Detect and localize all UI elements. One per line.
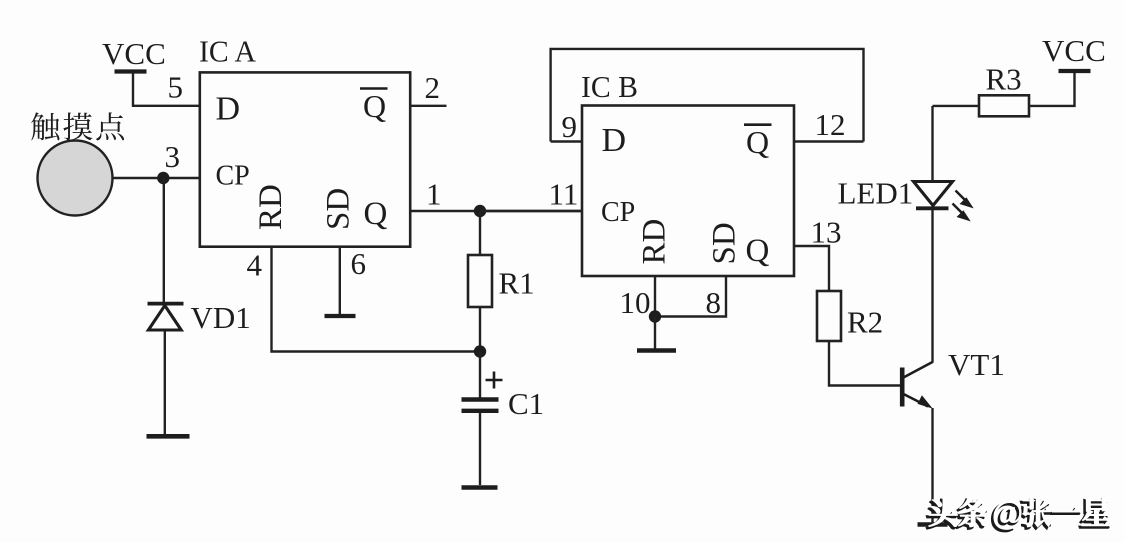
watermark 头条@张一星 (927, 500, 1109, 532)
wire node to ground (654, 317, 656, 349)
svg-text:3: 3 (165, 139, 181, 174)
svg-text:IC A: IC A (199, 34, 257, 69)
wire R3 to VCC (1029, 73, 1075, 106)
transistor VT1 (902, 362, 933, 409)
svg-text:D: D (216, 91, 241, 128)
wire touch pad to CP (pin 3) (113, 177, 200, 179)
wire pin 6 (SD) to ground (339, 247, 341, 315)
svg-text:CP: CP (601, 197, 635, 228)
svg-text:12: 12 (815, 107, 846, 142)
wire pin 8 stub down and left (655, 276, 726, 317)
op-amp/flip-flop IC A box (200, 72, 410, 246)
wire VD1 to terminal (164, 331, 166, 434)
wire R2 to VT1 base (829, 341, 900, 386)
svg-text:R2: R2 (847, 305, 883, 340)
wire collector up to LED (931, 210, 933, 363)
wire pin 13 (Q) right and down to R2 (794, 246, 829, 291)
diode VD1 (148, 304, 184, 330)
wire VCC to pin 5 (D of IC A) (133, 74, 200, 106)
power VCC (left) (102, 36, 166, 72)
node junction at R1 top (474, 205, 486, 217)
wire pin 10 stub down (654, 276, 656, 317)
node junction at pin 3 (157, 172, 169, 184)
touch pad circle (38, 141, 113, 216)
svg-text:Q: Q (746, 124, 769, 160)
svg-text:D: D (602, 122, 627, 159)
wire pin 4 (RD) down and right to R1/C1 node (272, 247, 481, 352)
svg-text:5: 5 (168, 70, 184, 105)
svg-text:1: 1 (426, 177, 442, 212)
wire pin 9 stub (551, 140, 582, 142)
svg-text:SD: SD (707, 222, 743, 264)
pin 11 wire into CP (480, 210, 582, 212)
svg-text:VCC: VCC (1042, 33, 1106, 68)
wire LED anode up to R3 (931, 106, 933, 182)
C1 polarity plus sign (486, 372, 503, 389)
svg-text:9: 9 (562, 109, 578, 144)
svg-text:Q: Q (364, 196, 388, 232)
wire R1 to node (479, 307, 481, 352)
wire LED net to R3 (933, 105, 980, 107)
svg-text:VT1: VT1 (948, 347, 1005, 382)
svg-text:11: 11 (549, 177, 579, 212)
wire emitter down to terminal (931, 408, 933, 523)
flip-flop IC B box (582, 106, 794, 277)
svg-text:RD: RD (637, 219, 673, 265)
node junction pins 10/8 (649, 310, 661, 322)
resistor R3 (979, 95, 1029, 116)
resistor R1 (468, 255, 492, 307)
svg-text:13: 13 (811, 215, 842, 250)
svg-text:10: 10 (620, 285, 651, 320)
svg-text:8: 8 (706, 285, 722, 320)
IC A pin Qbar label (360, 88, 388, 124)
svg-text:VD1: VD1 (191, 300, 251, 335)
ground terminal below C1 (462, 485, 498, 490)
LED LED1 symbol (914, 182, 973, 221)
wire node to C1 (479, 352, 481, 398)
resistor R2 (817, 291, 841, 341)
wire pin 2 stub (410, 105, 446, 107)
feedback wire Qbar(12) to D(9) (551, 49, 864, 142)
svg-text:RD: RD (253, 184, 289, 230)
svg-text:LED1: LED1 (838, 176, 914, 211)
ground below IC B (637, 348, 676, 353)
ground terminal below VT1 emitter (918, 522, 948, 526)
wire node to R1 (479, 211, 481, 255)
wire pin 12 stub (794, 140, 864, 142)
svg-text:4: 4 (247, 248, 263, 283)
svg-text:IC B: IC B (581, 69, 638, 104)
svg-text:SD: SD (321, 188, 357, 230)
svg-text:C1: C1 (508, 386, 544, 421)
ground terminal below VD1 (147, 434, 190, 439)
wire Q of IC A (pin 1) to CP of IC B (pin 11) (410, 210, 582, 212)
svg-text:2: 2 (425, 70, 441, 105)
svg-text:Q: Q (363, 88, 386, 124)
wire C1 to terminal (479, 413, 481, 485)
wire pin3 node down to VD1 (163, 178, 165, 302)
power VCC (right) (1042, 33, 1106, 71)
svg-text:6: 6 (351, 246, 367, 281)
touch pad label 触摸点 (31, 112, 124, 140)
ground below pin 6 (325, 314, 356, 318)
svg-text:CP: CP (216, 161, 250, 192)
IC B pin Qbar label (744, 124, 772, 160)
svg-text:Q: Q (746, 233, 770, 269)
capacitor C1 (462, 400, 499, 411)
svg-text:R1: R1 (499, 266, 535, 301)
svg-text:R3: R3 (986, 62, 1022, 97)
node junction R1/C1/pin4 (474, 345, 486, 357)
svg-text:VCC: VCC (102, 36, 166, 71)
